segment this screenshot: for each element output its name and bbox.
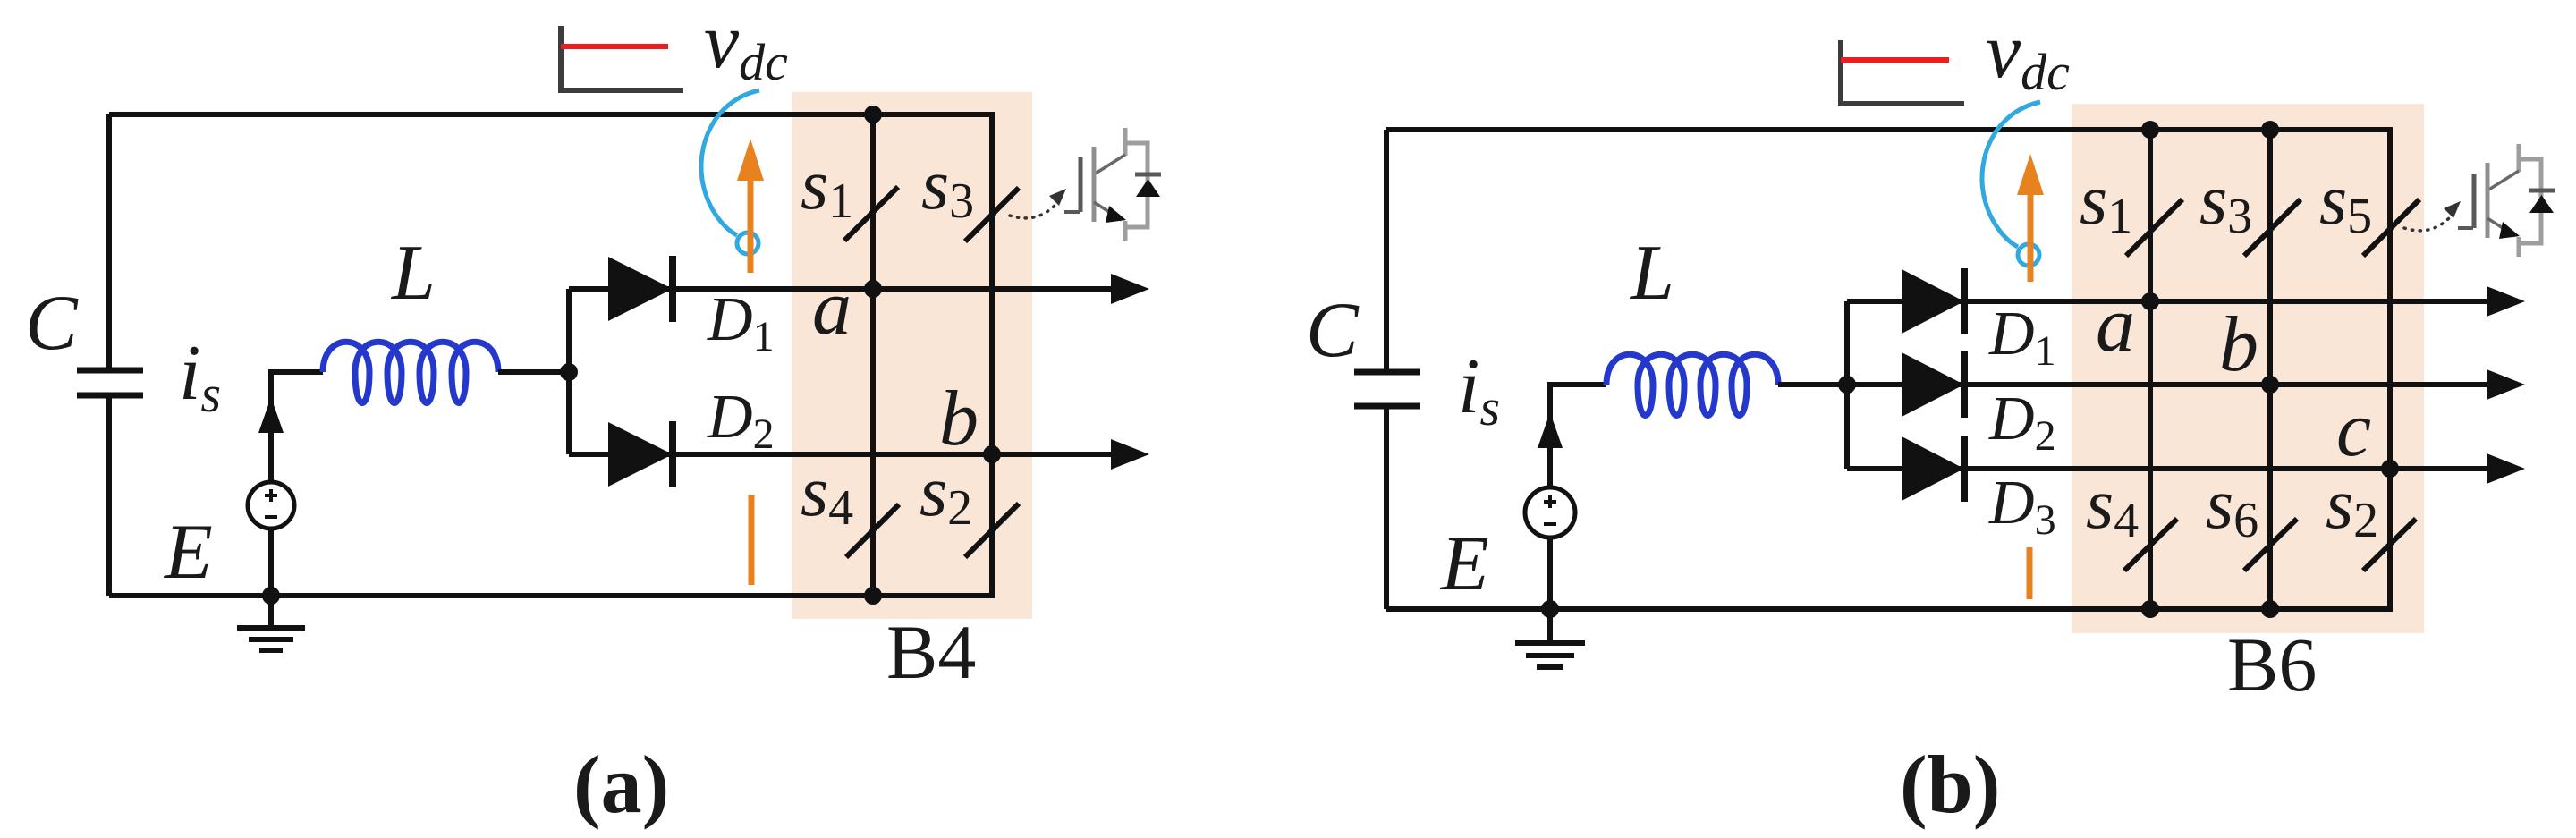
- bridge leg 1 (b): [2148, 130, 2153, 609]
- wire phase line b with output arrow: [569, 452, 1114, 457]
- svg-text:C: C: [25, 280, 79, 367]
- vdc scope symbol (a): [561, 26, 683, 90]
- svg-text:is: is: [179, 330, 221, 423]
- svg-text:vdc: vdc: [704, 0, 788, 91]
- orange lower segment (a): [749, 495, 755, 585]
- svg-text:(b): (b): [1900, 739, 2000, 830]
- wire source to inductor with corner (a): [271, 372, 323, 482]
- wire vertical branch to diodes (b): [1844, 301, 1850, 469]
- switch s2 slash: [965, 504, 1019, 557]
- capacitor C plates (b): [1354, 372, 1420, 406]
- vdc measurement arc (a): [701, 90, 759, 235]
- svg-text:D1: D1: [707, 285, 775, 360]
- svg-text:D2: D2: [1988, 385, 2056, 460]
- svg-text:b: b: [2219, 301, 2258, 388]
- switch s5 slash (b): [2363, 199, 2419, 256]
- orange lower segment (b): [2027, 547, 2033, 599]
- wire coil to junction (a): [498, 369, 569, 375]
- capacitor C plates: [77, 370, 143, 395]
- svg-text:(a): (a): [573, 739, 669, 830]
- wire top dc bus + right leg + bottom bus (b): [1386, 130, 2390, 609]
- ground (a): [237, 596, 305, 650]
- switch s2 slash (b): [2363, 519, 2416, 571]
- inductor L coil (b): [1606, 354, 1778, 415]
- diode D3 (b): [1902, 436, 1964, 501]
- wire phase line a with output arrow: [569, 286, 1114, 292]
- svg-text:B4: B4: [886, 609, 976, 695]
- bridge leg 1 (a): [870, 114, 876, 596]
- svg-text:D3: D3: [1988, 469, 2056, 544]
- svg-text:b: b: [939, 376, 979, 462]
- switch s6 slash (b): [2244, 519, 2297, 571]
- shaded region B4: [792, 92, 1032, 619]
- inductor L coil (a): [323, 342, 498, 402]
- wire left branch with capacitor gap (b): [1384, 130, 1389, 609]
- diode D1 (b): [1902, 269, 1964, 334]
- svg-text:a: a: [812, 265, 852, 351]
- vdc scope symbol (b): [1841, 40, 1964, 104]
- diode D1: [608, 257, 673, 321]
- IGBT symbol (a): [1064, 128, 1161, 241]
- wire phase line a (b) with output arrow: [1847, 299, 2490, 304]
- svg-text:E: E: [1439, 521, 1489, 607]
- bridge leg 2 (b): [2267, 130, 2273, 609]
- wire top dc bus + right leg + bottom bus (a): [109, 114, 992, 596]
- switch s4 slash: [846, 504, 899, 557]
- svg-text:B6: B6: [2227, 622, 2317, 707]
- current source E circle: [248, 482, 294, 529]
- shaded region B6: [2072, 104, 2424, 633]
- svg-text:D1: D1: [1988, 300, 2056, 375]
- switch s3 slash (b): [2244, 199, 2301, 256]
- current arrow i_s (a): [258, 397, 284, 433]
- svg-text:E: E: [163, 509, 213, 596]
- svg-text:a: a: [2096, 282, 2135, 368]
- switch s1 slash (b): [2126, 199, 2182, 256]
- diode D2: [608, 422, 673, 487]
- svg-text:C: C: [1306, 287, 1360, 374]
- wire left branch with capacitor gap (a): [106, 114, 112, 596]
- wire coil to junction (b): [1778, 382, 1847, 387]
- wire phase line b (b) with output arrow: [1847, 382, 2490, 387]
- wire vertical branch to diodes (a): [566, 289, 572, 454]
- svg-text:c: c: [2336, 386, 2371, 473]
- switch s1 slash: [844, 187, 898, 241]
- ground (b): [1515, 609, 1585, 667]
- svg-text:L: L: [390, 230, 436, 317]
- current source E circle (b): [1525, 487, 1575, 538]
- svg-text:D2: D2: [707, 383, 775, 458]
- dashed pointer arrow to IGBT (a): [1010, 205, 1055, 218]
- wire source to inductor with corner (b): [1550, 385, 1606, 487]
- dashed pointer arrow to IGBT (b): [2404, 217, 2450, 231]
- orange arrow vdc (b): [2028, 190, 2034, 282]
- wire source bottom (a): [268, 529, 274, 596]
- svg-text:is: is: [1458, 343, 1500, 436]
- junction dot source-bottom (b): [1541, 600, 1559, 618]
- svg-text:vdc: vdc: [1986, 8, 2070, 101]
- switch s3 slash: [965, 188, 1019, 241]
- junction dots bridge (a): [864, 106, 882, 123]
- orange arrow vdc (a): [748, 177, 754, 273]
- switch s4 slash (b): [2124, 519, 2177, 571]
- junction dot after L (b): [1838, 376, 1856, 394]
- junction dot source-bottom (a): [262, 587, 280, 605]
- junction dot after L (a): [560, 363, 578, 381]
- wire source bottom (b): [1547, 538, 1553, 609]
- diode D2 (b): [1902, 352, 1964, 417]
- svg-text:L: L: [1629, 230, 1674, 317]
- IGBT symbol (b): [2458, 144, 2555, 257]
- wire phase line c (b) with output arrow: [1847, 466, 2490, 471]
- junction dots bridge (b): [2141, 121, 2159, 139]
- vdc measurement arc (b): [1982, 102, 2040, 247]
- current arrow i_s (b): [1538, 412, 1563, 448]
